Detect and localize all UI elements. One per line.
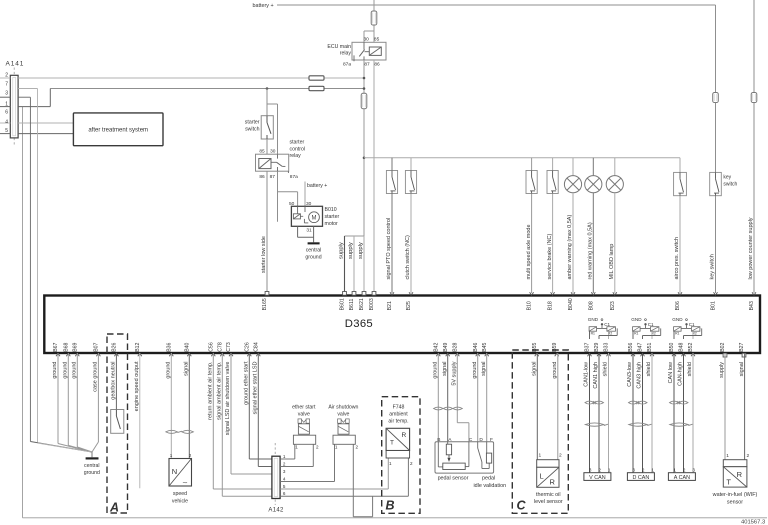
pin B12 (D365 bottom) [135, 342, 142, 356]
pin B33 (D365 bottom) [604, 342, 611, 356]
label signal PTO speed control [386, 218, 392, 280]
pin 2 (WIF) [746, 453, 749, 459]
wire fused supply down [363, 109, 365, 236]
svg-text:1: 1 [651, 468, 654, 473]
wire A141 pin7 to ground drop [18, 88, 37, 90]
svg-text:B12: B12 [135, 342, 141, 351]
label signal ambient air temp. [217, 361, 223, 420]
fuse F (key switch) [713, 93, 719, 103]
svg-text:B48: B48 [679, 342, 685, 351]
twist symbol A CAN row2 [670, 423, 693, 426]
svg-text:2: 2 [316, 445, 319, 450]
pin 87a (ECU main relay) [343, 62, 351, 68]
svg-text:ground: ground [52, 362, 58, 379]
wire C56 return ambient [213, 353, 272, 489]
wire D CAN low [632, 353, 634, 473]
label signal LSD air shutdown valve [225, 362, 231, 436]
ground central ground (starter) [308, 242, 320, 244]
valve ether start valve [292, 405, 316, 445]
wire B36 ground [170, 353, 172, 459]
label multi speed axle mode [526, 224, 532, 279]
wire B27 signal [744, 353, 746, 460]
svg-text:B18: B18 [548, 301, 554, 310]
pin 4 (A141) [5, 120, 8, 126]
svg-text:A141: A141 [6, 61, 25, 68]
node battery + [253, 3, 716, 9]
pin C56 (D365 bottom) [208, 342, 215, 356]
label engine speed output [134, 361, 140, 411]
twist symbol V CAN row1 [585, 401, 604, 404]
svg-text:starter: starter [245, 119, 260, 125]
sensor speed vehicle [169, 459, 192, 488]
pin 2 (A142) [283, 461, 286, 466]
svg-text:sensor: sensor [727, 499, 743, 505]
wire relay 87 down [363, 60, 365, 93]
wire A142 pin6 to F748 [280, 458, 408, 496]
label service brake (NC) [547, 233, 553, 279]
label ECU main relay [327, 44, 351, 57]
svg-text:B56: B56 [628, 342, 634, 351]
svg-text:B37: B37 [585, 342, 591, 351]
svg-text:pedal sensor: pedal sensor [438, 476, 469, 482]
svg-text:B45: B45 [482, 342, 488, 351]
svg-text:switch: switch [245, 126, 260, 132]
wire air valve pin2 loop [353, 444, 372, 517]
pin B46 (D365 bottom) [473, 342, 480, 356]
label A142 [268, 508, 284, 514]
label B010 starter motor [325, 207, 340, 227]
svg-text:31: 31 [306, 228, 312, 234]
svg-text:5: 5 [283, 484, 286, 489]
svg-text:CAN1-low: CAN1-low [584, 362, 590, 387]
svg-text:B27: B27 [739, 342, 745, 351]
svg-text:C56: C56 [208, 342, 214, 352]
pin 1 (WIF) [726, 453, 729, 459]
label airco pres switch [674, 237, 680, 280]
wire key switch drop [715, 5, 717, 93]
pin B43 (D365 top) [749, 292, 756, 310]
svg-text:C26: C26 [244, 342, 250, 352]
label speed vehicle [172, 491, 188, 504]
svg-text:B42: B42 [433, 342, 439, 351]
svg-text:signal: signal [442, 362, 448, 376]
pin 5 (A142) [283, 484, 286, 489]
ECU D365 box [44, 296, 760, 354]
pin 30 (ECU main relay) [364, 37, 370, 43]
svg-text:B28: B28 [452, 342, 458, 351]
wire battery drop to ECU main relay [373, 0, 375, 31]
wire A141 pin 5 stub [0, 133, 10, 135]
svg-text:C73: C73 [226, 342, 232, 352]
svg-text:B50: B50 [669, 342, 675, 351]
svg-text:central: central [306, 248, 322, 254]
svg-text:ground: ground [472, 362, 478, 379]
pin 2 (F748) [410, 461, 413, 466]
svg-text:valve: valve [298, 412, 310, 418]
pin B601 (D365 top) [340, 292, 347, 311]
svg-text:C: C [517, 498, 527, 512]
fuse F (ECU main relay 30) [371, 11, 377, 25]
svg-text:T: T [726, 478, 731, 487]
pin 30 (starter relay) [270, 149, 276, 155]
svg-text:CAN3 high: CAN3 high [637, 362, 643, 389]
pin B36 (D365 bottom) [166, 342, 173, 356]
svg-text:6: 6 [283, 491, 286, 496]
pin B55 (D365 bottom) [532, 342, 539, 356]
relay starter control relay [256, 154, 289, 173]
wire B68 ground [68, 353, 92, 452]
svg-text:clutch switch (NC): clutch switch (NC) [405, 235, 411, 279]
wire A141 pin 1 stub [0, 106, 10, 108]
label D365 [345, 318, 373, 330]
svg-text:CAN3-low: CAN3-low [627, 362, 633, 387]
page frame [23, 107, 768, 518]
wire starter low side (86 to B165) [266, 171, 268, 293]
svg-text:ground: ground [166, 362, 172, 379]
svg-text:B165: B165 [262, 298, 268, 310]
svg-text:CAN low: CAN low [668, 362, 674, 383]
pin 85 (ECU main relay) [374, 37, 380, 43]
svg-text:87: 87 [270, 174, 276, 180]
label pedal sensor [438, 476, 469, 482]
pin 86 (starter relay) [259, 174, 265, 180]
svg-text:ground ether start: ground ether start [244, 361, 250, 405]
svg-text:CAN-high: CAN-high [678, 362, 684, 386]
pin B50 (D365 bottom) [669, 342, 676, 356]
wire C78 signal ambient [222, 353, 272, 496]
svg-text:B601: B601 [340, 298, 346, 310]
svg-text:50: 50 [289, 201, 295, 207]
connector D CAN [627, 473, 654, 481]
label key switch (rot) [710, 254, 716, 279]
label central ground (left) [84, 463, 100, 476]
svg-text:B01: B01 [711, 301, 717, 310]
svg-text:B46: B46 [473, 342, 479, 351]
pin B29 (D365 bottom) [594, 342, 601, 356]
label case ground [93, 362, 99, 392]
wire B49 signal [447, 353, 449, 442]
svg-text:battery +: battery + [307, 183, 327, 189]
svg-text:after treatment system: after treatment system [88, 128, 148, 134]
pin B01 (D365 top) [711, 292, 718, 310]
svg-text:valve: valve [337, 412, 349, 418]
label ground B68 [63, 362, 69, 379]
pin B27 (D365 bottom) [739, 342, 746, 357]
svg-text:supply: supply [358, 242, 364, 259]
label signal (B40) [184, 362, 190, 376]
label shield (D CAN) [646, 362, 652, 376]
svg-text:B621: B621 [359, 298, 365, 310]
svg-text:85: 85 [259, 149, 265, 155]
svg-text:1: 1 [335, 445, 338, 450]
wire C26 ground ether start [249, 353, 272, 459]
svg-text:ECU main: ECU main [327, 44, 351, 50]
label ground (B42) [433, 362, 439, 379]
svg-text:starter low side: starter low side [261, 236, 267, 273]
twist symbol D CAN row2 [629, 423, 652, 426]
svg-text:ground: ground [72, 362, 78, 379]
svg-text:T: T [390, 440, 394, 447]
wire B40 signal [188, 353, 190, 459]
svg-text:B003: B003 [369, 298, 375, 310]
pin B25 (D365 top) [406, 292, 413, 310]
svg-text:signal ambient air temp.: signal ambient air temp. [217, 361, 223, 420]
wire A CAN low [673, 353, 675, 473]
wire A141 grounds to fan [30, 442, 92, 453]
svg-text:~: ~ [183, 478, 188, 488]
svg-text:amber warning (max 0,5A): amber warning (max 0,5A) [567, 215, 573, 280]
fuse F (line2) [309, 86, 324, 90]
svg-text:red warning (max 0,5A): red warning (max 0,5A) [588, 222, 594, 279]
wire/lamp red warning (max 0,5A) [585, 158, 602, 293]
svg-text:B51: B51 [647, 342, 653, 351]
svg-text:2: 2 [410, 461, 413, 466]
wire B45 signal [486, 353, 488, 442]
svg-text:D365: D365 [345, 318, 373, 330]
pin B18 (D365 top) [548, 292, 555, 310]
pin numbers D CAN [632, 468, 654, 473]
pin C (pedal sensor) [469, 437, 473, 443]
pin B48 (D365 bottom) [679, 342, 686, 356]
svg-text:86: 86 [259, 174, 265, 180]
svg-text:B23: B23 [610, 301, 616, 310]
pin 1 (ether valve) [295, 445, 298, 450]
svg-text:A CAN: A CAN [674, 475, 690, 481]
pin B07 (D365 bottom) [94, 342, 101, 356]
label CAN3 high [637, 362, 643, 389]
twist symbol V CAN row2 [585, 423, 608, 426]
wire B02 supply [724, 353, 726, 460]
svg-text:1: 1 [295, 445, 298, 450]
svg-text:B43: B43 [749, 301, 755, 310]
svg-text:B07: B07 [94, 342, 100, 351]
pin 3 (A142) [283, 469, 286, 474]
label red warning (max 0,5A) [588, 222, 594, 279]
svg-text:B06: B06 [675, 301, 681, 310]
wire B46 ground [477, 353, 479, 442]
svg-text:key switch: key switch [710, 254, 716, 279]
svg-text:GND: GND [672, 317, 683, 322]
wire switched bus [363, 157, 680, 160]
wire D CAN high [642, 353, 644, 473]
svg-text:relay: relay [290, 153, 302, 159]
box after treatment system [73, 113, 163, 146]
sensor F748 ambient air temp [386, 405, 410, 459]
valve Air shutdown valve [328, 405, 358, 445]
wire A141 pin1 corner [18, 89, 50, 107]
svg-text:2: 2 [356, 445, 359, 450]
svg-text:4: 4 [5, 120, 8, 126]
svg-text:speed: speed [173, 491, 187, 497]
pin B10 (D365 top) [527, 292, 534, 310]
pin B52 (D365 bottom) [688, 342, 695, 356]
svg-text:relay: relay [340, 51, 352, 57]
wire B12 engine speed output [139, 353, 141, 488]
label MIL OBD lamp [609, 244, 615, 280]
wire B28 5V supply [457, 353, 469, 442]
pin B06 (D365 top) [675, 292, 682, 310]
svg-text:N: N [172, 467, 177, 476]
switch key switch [710, 103, 722, 294]
pin 4 (A142) [283, 476, 286, 481]
svg-text:level sensor: level sensor [534, 499, 563, 505]
label starter switch [245, 119, 260, 132]
svg-text:A142: A142 [268, 508, 284, 514]
fuse F (line1) [309, 76, 324, 80]
label central ground (starter) [305, 248, 321, 261]
svg-text:B69: B69 [72, 342, 78, 351]
svg-text:A: A [109, 500, 119, 514]
pin B51 (D365 bottom) [647, 342, 654, 356]
svg-text:Air shutdown: Air shutdown [328, 405, 358, 411]
fuse F (low power) [751, 93, 757, 103]
svg-text:1: 1 [673, 468, 676, 473]
svg-text:3: 3 [692, 468, 695, 473]
label supply (B02) [719, 362, 725, 378]
label signal (B45) [481, 362, 487, 376]
connector A142 [272, 443, 280, 505]
pin 1 (F748) [389, 461, 392, 466]
svg-text:2: 2 [746, 453, 749, 459]
svg-text:2: 2 [642, 468, 645, 473]
pin D (pedal idle) [479, 437, 483, 443]
pin 2 (ether valve) [316, 445, 319, 450]
label supply 1 [338, 242, 344, 259]
svg-text:B26: B26 [112, 342, 118, 351]
label after treatment system [88, 128, 148, 134]
svg-text:401567.3: 401567.3 [741, 519, 765, 525]
switch starter switch [261, 116, 273, 139]
pin B56 (D365 bottom) [628, 342, 635, 356]
svg-text:M: M [312, 216, 317, 222]
svg-text:C78: C78 [217, 342, 223, 352]
pin B21 (D365 top) [387, 292, 394, 310]
label ground (B36) [166, 362, 172, 379]
svg-text:ground: ground [552, 362, 558, 379]
wire C84 signal ether start [258, 353, 272, 467]
termination network A CAN (R1 R2 C1 GND) [672, 317, 701, 339]
termination network D CAN (R1 R2 C1 GND) [631, 317, 660, 339]
svg-text:battery +: battery + [253, 3, 274, 9]
pin B040 (D365 top) [568, 292, 575, 310]
svg-text:1: 1 [726, 453, 729, 459]
svg-text:key: key [723, 175, 731, 181]
label return ambient air temp. [208, 361, 214, 420]
wire starter supply tap [266, 87, 269, 104]
pin B49 (D365 bottom) [443, 342, 450, 356]
wire V CAN high [598, 353, 600, 473]
svg-text:multi speed axle mode: multi speed axle mode [526, 224, 532, 279]
svg-text:7: 7 [5, 82, 8, 88]
svg-text:87a: 87a [290, 174, 298, 180]
wire relay 86 down to pin B003 [373, 60, 375, 292]
svg-text:signal ether start LSD: signal ether start LSD [253, 361, 259, 414]
svg-text:2: 2 [598, 468, 601, 473]
pin numbers V CAN [589, 468, 611, 473]
twist symbol speed vehicle [166, 430, 194, 433]
svg-text:L: L [540, 471, 544, 480]
connector A CAN [668, 473, 695, 481]
svg-text:signal: signal [739, 362, 745, 376]
wire B42 ground [437, 353, 439, 442]
wire A141 pin 2 stub [0, 77, 10, 79]
label CAN1-low [584, 362, 590, 387]
svg-text:return ambient air temp.: return ambient air temp. [208, 361, 214, 420]
svg-text:airco pres. switch: airco pres. switch [674, 237, 680, 280]
svg-text:ground: ground [84, 470, 100, 476]
wire motor low jog [298, 226, 314, 237]
pin 87a (starter relay) [290, 174, 298, 180]
svg-text:5V supply: 5V supply [452, 361, 458, 385]
svg-text:water-in-fuel (WIF): water-in-fuel (WIF) [712, 492, 758, 498]
pin 2 (air valve) [356, 445, 359, 450]
svg-text:pedal: pedal [482, 476, 495, 482]
svg-text:supply: supply [348, 242, 354, 259]
svg-text:C84: C84 [253, 342, 259, 352]
switch pedal idle validation [478, 442, 492, 469]
label thermic oil level sensor [534, 492, 563, 505]
svg-text:supply: supply [719, 362, 725, 378]
pin 1 (thermic) [538, 453, 541, 459]
pin B59 (D365 bottom) [552, 342, 559, 356]
junction line1/87 [363, 77, 366, 80]
pin A (pedal sensor) [448, 437, 452, 443]
wire C73 signal LSD [231, 353, 272, 474]
wire B26 gearbox neutral [115, 353, 117, 410]
label key switch (beside) [723, 175, 737, 188]
svg-text:B08: B08 [588, 301, 594, 310]
wire A141 pin5 to ATS [18, 133, 73, 135]
svg-text:B40: B40 [184, 342, 190, 351]
pin B02 (D365 bottom) [720, 342, 727, 357]
svg-text:central: central [84, 463, 100, 469]
svg-text:3: 3 [5, 91, 8, 97]
pin 87 (ECU main relay) [364, 62, 370, 68]
pin B621 (D365 top) [359, 292, 366, 311]
svg-text:shield: shield [646, 362, 652, 376]
label signal (B27) [739, 362, 745, 376]
wire V CAN low [589, 353, 591, 473]
svg-text:ground: ground [305, 255, 321, 261]
wire A142 pin5 to F748 [280, 458, 388, 489]
pin B45 (D365 bottom) [482, 342, 489, 356]
label amber warning (max 0,5A) [567, 215, 573, 280]
svg-text:85: 85 [374, 37, 380, 43]
svg-text:30: 30 [364, 37, 370, 43]
pin numbers A CAN [673, 468, 695, 473]
connector V CAN [584, 473, 611, 481]
label gearbox neutral [111, 362, 117, 400]
svg-text:signal LSD air shutdown valve: signal LSD air shutdown valve [225, 362, 231, 436]
wire low power counter supply [753, 0, 755, 93]
svg-text:B25: B25 [406, 301, 412, 310]
svg-text:air temp.: air temp. [388, 419, 408, 425]
twist symbol A CAN row1 [670, 401, 689, 404]
svg-text:B010: B010 [325, 207, 337, 213]
svg-text:ambient: ambient [389, 412, 408, 418]
svg-text:V CAN: V CAN [589, 475, 606, 481]
sheet number 401567.3 [741, 519, 765, 525]
label ground B69 [72, 362, 78, 379]
svg-text:2: 2 [189, 453, 192, 458]
relay ECU main relay [352, 42, 386, 61]
termination network V CAN (R1 R2 C1 GND) [588, 317, 617, 339]
svg-text:3: 3 [589, 468, 592, 473]
pin C84 (D365 bottom) [253, 342, 260, 356]
svg-text:6: 6 [5, 110, 8, 116]
label B [386, 498, 395, 512]
wire A CAN shield [692, 353, 694, 473]
